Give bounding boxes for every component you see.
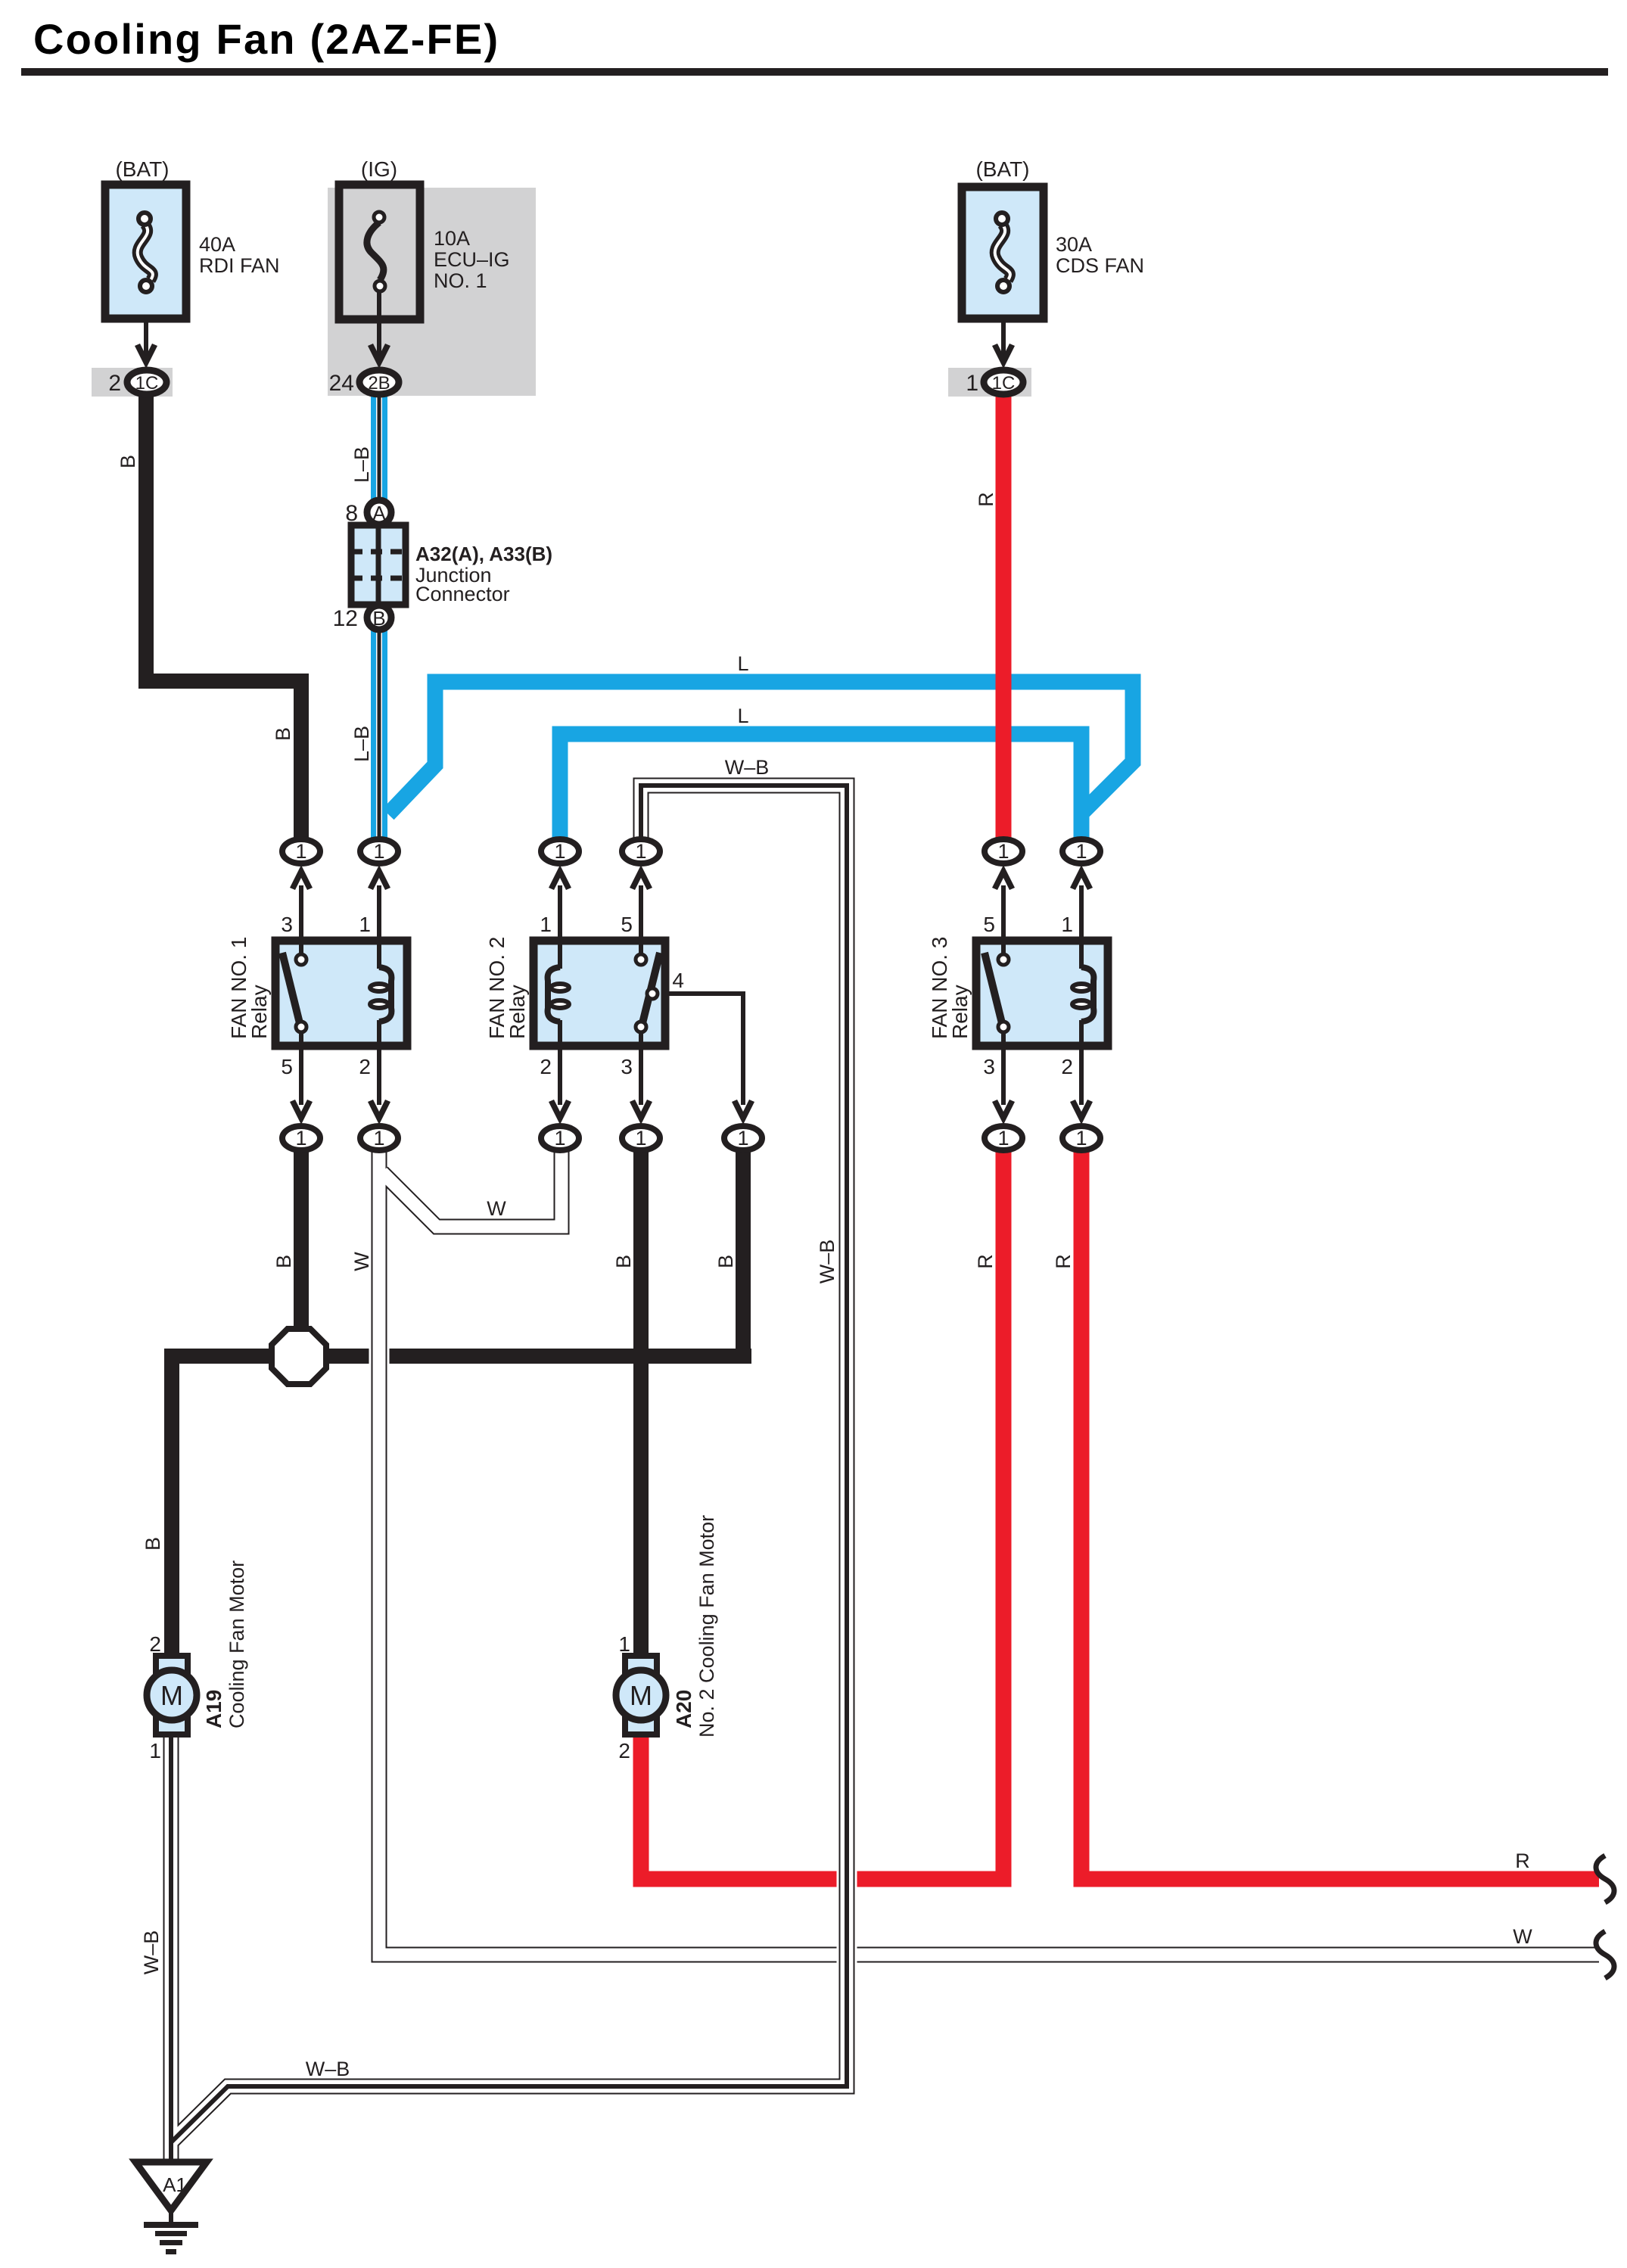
motor A20 terminal bottom (625, 1716, 657, 1734)
svg-text:2: 2 (618, 1739, 630, 1762)
svg-text:CDS FAN: CDS FAN (1056, 254, 1144, 277)
svg-text:1: 1 (295, 1127, 306, 1150)
wire B: relay2 pin4 branch down to bus (736, 1150, 751, 1362)
connector 1 below relay pin x=501 (368, 1100, 390, 1125)
svg-text:W–B: W–B (725, 756, 770, 779)
svg-text:5: 5 (983, 913, 995, 936)
svg-text:3: 3 (983, 1055, 995, 1078)
svg-text:No. 2 Cooling Fan Motor: No. 2 Cooling Fan Motor (695, 1515, 718, 1738)
connector 1 below relay pin x=1326 (992, 1100, 1015, 1125)
relay pin lead bottom x=1429 (1079, 1044, 1084, 1105)
relay pin lead bottom x=847 (639, 1044, 643, 1105)
svg-text:Cooling Fan Motor: Cooling Fan Motor (226, 1560, 248, 1728)
svg-text:2: 2 (108, 371, 121, 396)
svg-text:40A: 40A (199, 233, 235, 256)
wire R: motor A20 pin2 right and up to relay3 pin3 (641, 1150, 1003, 1879)
svg-text:3: 3 (281, 913, 293, 936)
connector 1 above relay pin x=501 (368, 865, 390, 890)
svg-text:L–B: L–B (350, 446, 373, 483)
svg-text:Relay: Relay (948, 985, 972, 1039)
relay pin lead top x=398 (299, 885, 303, 943)
svg-text:10A: 10A (434, 227, 470, 250)
svg-text:5: 5 (621, 913, 633, 936)
splice junction octagon (272, 1329, 326, 1384)
connector 1 above relay pin x=847 (630, 865, 652, 890)
svg-text:1: 1 (635, 1127, 646, 1150)
wire R: fuse CDS FAN 1C down to relay3 pin5 (996, 392, 1012, 842)
fuse 40A RDI FAN (105, 185, 186, 319)
ground A1 (135, 2162, 207, 2210)
svg-text:B: B (272, 1255, 295, 1268)
svg-text:Cooling Fan (2AZ-FE): Cooling Fan (2AZ-FE) (33, 15, 499, 63)
connector 1 above relay pin x=398 (290, 865, 313, 890)
motor A20 body (616, 1670, 666, 1720)
svg-text:R: R (974, 1254, 997, 1269)
svg-text:1: 1 (1061, 913, 1073, 936)
connector 1 above relay pin x=740 (549, 865, 571, 890)
svg-text:R: R (975, 492, 997, 507)
connector 1 1C (984, 370, 1023, 394)
svg-text:(IG): (IG) (361, 157, 397, 181)
relay pin lead bottom x=1326 (1001, 1044, 1006, 1105)
svg-text:5: 5 (281, 1055, 293, 1078)
svg-text:L: L (737, 652, 748, 675)
svg-text:1: 1 (295, 840, 306, 863)
svg-text:M: M (630, 1680, 652, 1711)
wire B: relay1 pin5 to splice octagon (294, 1150, 309, 1336)
svg-text:Connector: Connector (415, 583, 510, 605)
svg-text:W–B: W–B (140, 1930, 163, 1975)
svg-text:L: L (737, 705, 748, 727)
svg-text:B: B (372, 607, 385, 630)
arrow into 2B (368, 344, 390, 369)
svg-text:A19: A19 (202, 1690, 226, 1728)
connector 1 above relay pin x=1429 (1070, 865, 1093, 890)
relay pin lead bottom x=501 (377, 1044, 381, 1105)
motor A20 terminal top (625, 1656, 657, 1674)
svg-text:M: M (160, 1680, 183, 1711)
relay pin lead top x=1429 (1079, 885, 1084, 943)
svg-text:B: B (714, 1255, 737, 1268)
junction connector A32(A) A33(B) (351, 525, 406, 605)
relay pin lead top x=847 (639, 885, 643, 943)
svg-text:2: 2 (359, 1055, 371, 1078)
fuse 30A CDS FAN (962, 187, 1044, 319)
svg-text:1: 1 (149, 1739, 161, 1762)
svg-text:A1: A1 (163, 2173, 187, 2196)
svg-text:1: 1 (1075, 1127, 1087, 1150)
wire R: relay3 pin2 down and right to page edge (1081, 1150, 1599, 1879)
relay pin lead top x=501 (377, 885, 381, 943)
relay FAN NO. 2 switch (639, 943, 643, 955)
fuse CDS FAN tail (1001, 288, 1006, 359)
gray panel behind ECU-IG fuse (328, 188, 536, 396)
connector 1 below relay pin x=398 (290, 1100, 313, 1125)
svg-text:1: 1 (737, 1127, 748, 1150)
relay FAN NO. 2 coil (558, 943, 562, 969)
relay pin lead top x=1326 (1001, 885, 1006, 943)
relay FAN NO. 2 pin4 contact (647, 988, 658, 999)
svg-text:B: B (612, 1255, 635, 1268)
fuse ECU-IG tail (377, 288, 381, 359)
svg-text:A20: A20 (672, 1690, 695, 1728)
svg-text:RDI FAN: RDI FAN (199, 254, 280, 277)
fuse RDI FAN tail (144, 288, 148, 359)
svg-text:Relay: Relay (506, 985, 529, 1039)
relay pin lead bottom x=740 (558, 1044, 562, 1105)
connector 1 above relay pin x=1326 (992, 865, 1015, 890)
relay FAN NO. 3 coil (1079, 943, 1084, 969)
svg-text:R: R (1515, 1850, 1530, 1872)
connector 1 below relay pin x=740 (549, 1100, 571, 1125)
svg-text:1: 1 (540, 913, 552, 936)
svg-text:NO. 1: NO. 1 (434, 269, 487, 292)
svg-text:W–B: W–B (306, 2058, 350, 2080)
svg-text:1: 1 (997, 840, 1009, 863)
svg-text:W: W (1513, 1925, 1532, 1948)
svg-text:Relay: Relay (247, 985, 271, 1039)
connector 2 1C (127, 370, 166, 394)
svg-text:1: 1 (373, 840, 384, 863)
wire W-B: motor A19 pin1 down to ground A1 (161, 1727, 182, 2166)
motor A19 terminal top (156, 1656, 188, 1674)
svg-text:1: 1 (373, 1127, 384, 1150)
svg-text:1: 1 (554, 1127, 565, 1150)
svg-text:L–B: L–B (350, 726, 373, 762)
svg-text:1: 1 (997, 1127, 1009, 1150)
svg-text:2B: 2B (368, 373, 390, 394)
svg-text:B: B (142, 1537, 164, 1551)
relay pin lead bottom x=398 (299, 1044, 303, 1105)
continuation squiggle W (1596, 1931, 1614, 1978)
svg-text:1: 1 (1075, 840, 1087, 863)
connector 24 2B (359, 370, 399, 394)
relay FAN NO. 1 coil (377, 943, 381, 969)
wire B: fuse RDI FAN 1C to relay1 pin3 (146, 392, 301, 842)
wire B: relay2 pin3 down to motor A20 pin1 (633, 1150, 649, 1662)
svg-text:1: 1 (554, 840, 565, 863)
svg-text:B: B (272, 727, 294, 741)
svg-text:A: A (372, 502, 386, 524)
svg-text:8: 8 (345, 501, 358, 526)
relay FAN NO. 3 switch (1001, 943, 1006, 955)
gray band behind connector 1 1C (948, 368, 1031, 397)
svg-text:2: 2 (1061, 1055, 1073, 1078)
relay FAN NO. 1 body (275, 941, 407, 1046)
fuse 10A ECU-IG NO.1 (339, 185, 420, 319)
wire W: relay1 pin2 down then right to page edge (379, 1150, 1599, 1955)
svg-text:W: W (350, 1252, 373, 1271)
svg-text:B: B (117, 455, 139, 468)
wire L: branch from L-B to relay3 pin1 (upper run) (388, 682, 1133, 814)
wire L-B: fuse ECU-IG 2B down to relay1 pin1 (371, 394, 387, 842)
svg-text:1: 1 (359, 913, 371, 936)
svg-text:1C: 1C (992, 373, 1016, 394)
svg-text:(BAT): (BAT) (975, 157, 1029, 181)
svg-text:2: 2 (540, 1055, 552, 1078)
relay FAN NO. 1 switch (299, 943, 303, 955)
svg-text:3: 3 (621, 1055, 633, 1078)
svg-text:1C: 1C (135, 373, 159, 394)
wire W: branch to relay2 pin2 (382, 1150, 562, 1227)
gray band behind connector 2 1C (92, 368, 173, 397)
connector 1 below relay pin x=982 (732, 1100, 754, 1125)
connector 1 below relay pin x=1429 (1070, 1100, 1093, 1125)
svg-text:1: 1 (635, 840, 646, 863)
arrow into 1C (135, 344, 157, 369)
wire L: relay2 pin1 to relay3 pin1 (lower run) (560, 734, 1081, 842)
relay FAN NO. 3 body (976, 941, 1108, 1046)
svg-text:30A: 30A (1056, 233, 1092, 256)
arrow into 1C (CDS) (992, 344, 1015, 369)
svg-text:1: 1 (618, 1632, 630, 1656)
motor A19 body (147, 1670, 197, 1720)
svg-text:(BAT): (BAT) (115, 157, 169, 181)
svg-text:1: 1 (966, 371, 978, 396)
svg-text:W: W (487, 1197, 506, 1220)
wire B: ground bus with corner down to motor A19 (172, 1356, 751, 1662)
wire W-B: relay2 pin5 over and down to ground run (171, 786, 847, 2142)
motor A19 terminal bottom (156, 1716, 188, 1734)
continuation squiggle R (1596, 1856, 1614, 1902)
svg-text:2: 2 (149, 1632, 161, 1656)
relay2 pin4 lead (652, 994, 743, 1105)
svg-text:4: 4 (672, 969, 684, 992)
relay FAN NO. 2 body (534, 941, 665, 1046)
svg-text:W–B: W–B (816, 1240, 838, 1284)
svg-text:ECU–IG: ECU–IG (434, 248, 510, 271)
svg-text:12: 12 (333, 606, 358, 631)
svg-text:24: 24 (329, 371, 354, 396)
relay pin lead top x=740 (558, 885, 562, 943)
svg-text:R: R (1052, 1254, 1075, 1269)
junction terminal B (367, 605, 391, 630)
junction terminal A (367, 500, 391, 524)
svg-text:A32(A), A33(B): A32(A), A33(B) (415, 543, 552, 565)
connector 1 below relay pin x=847 (630, 1100, 652, 1125)
